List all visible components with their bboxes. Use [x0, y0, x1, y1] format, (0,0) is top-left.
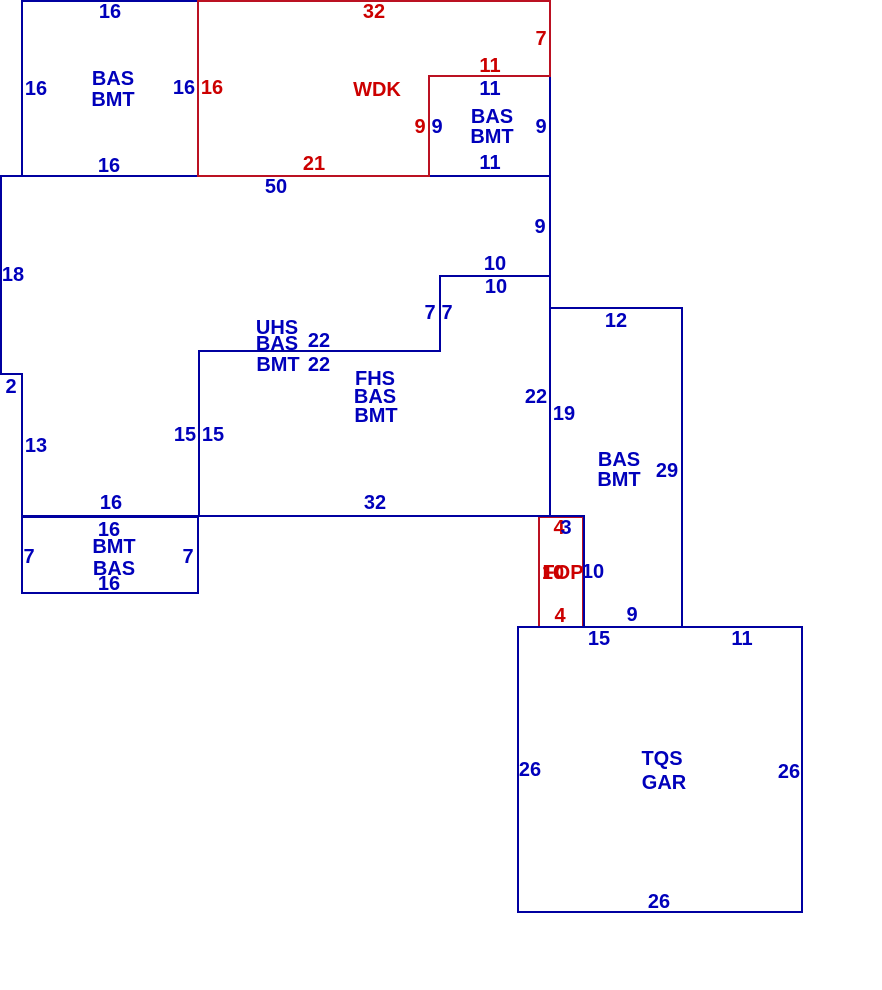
- area outline: TQS/GAR rectangle: [518, 627, 802, 912]
- svg-text:16: 16: [173, 77, 195, 99]
- svg-text:9: 9: [626, 604, 637, 626]
- area outline: red FOP rectangle: [539, 517, 583, 627]
- svg-text:16: 16: [100, 492, 122, 514]
- svg-text:11: 11: [479, 152, 500, 174]
- svg-text:7: 7: [23, 546, 34, 568]
- svg-text:BMT: BMT: [470, 126, 513, 148]
- area outline: top-right BAS/BMT rectangle: [429, 76, 550, 176]
- svg-text:32: 32: [364, 492, 386, 514]
- svg-text:10: 10: [582, 561, 604, 583]
- svg-text:7: 7: [182, 546, 193, 568]
- svg-text:11: 11: [731, 628, 752, 650]
- svg-text:BMT: BMT: [354, 405, 397, 427]
- svg-text:16: 16: [99, 1, 121, 23]
- svg-text:18: 18: [2, 264, 24, 286]
- svg-text:9: 9: [414, 116, 425, 138]
- area outline: bottom-left BMT/BAS rectangle: [22, 517, 198, 593]
- svg-text:29: 29: [656, 460, 678, 482]
- svg-text:12: 12: [605, 310, 627, 332]
- svg-text:9: 9: [535, 116, 546, 138]
- svg-text:9: 9: [431, 116, 442, 138]
- svg-text:16: 16: [98, 155, 120, 177]
- svg-text:BAS: BAS: [598, 449, 640, 471]
- svg-text:10: 10: [484, 253, 506, 275]
- svg-text:WDK: WDK: [353, 79, 401, 101]
- svg-text:21: 21: [303, 153, 325, 175]
- svg-text:7: 7: [441, 302, 452, 324]
- svg-text:11: 11: [479, 78, 500, 100]
- svg-text:BAS: BAS: [92, 68, 134, 90]
- svg-text:22: 22: [525, 386, 547, 408]
- svg-text:9: 9: [534, 216, 545, 238]
- svg-text:BAS: BAS: [471, 106, 513, 128]
- svg-text:22: 22: [308, 330, 330, 352]
- svg-text:BMT: BMT: [91, 89, 134, 111]
- svg-text:7: 7: [535, 28, 546, 50]
- svg-text:26: 26: [778, 761, 800, 783]
- svg-text:TQS: TQS: [641, 748, 682, 770]
- svg-text:BMT: BMT: [92, 536, 135, 558]
- svg-text:15: 15: [174, 424, 196, 446]
- area outline: main FHS/BAS/BMT polygon: [1, 176, 550, 516]
- svg-text:BMT: BMT: [597, 469, 640, 491]
- svg-text:16: 16: [98, 573, 120, 595]
- svg-text:22: 22: [308, 354, 330, 376]
- svg-text:19: 19: [553, 403, 575, 425]
- svg-text:BAS: BAS: [256, 333, 298, 355]
- svg-text:50: 50: [265, 176, 287, 198]
- svg-text:26: 26: [648, 891, 670, 913]
- svg-text:7: 7: [424, 302, 435, 324]
- svg-text:16: 16: [201, 77, 223, 99]
- svg-text:15: 15: [588, 628, 610, 650]
- area outline: top-left BAS/BMT rectangle: [22, 1, 198, 176]
- svg-text:11: 11: [479, 55, 500, 77]
- area outline: right BAS/BMT polygon: [550, 308, 682, 627]
- area outline: UHS step polyline: [199, 276, 550, 516]
- svg-text:BMT: BMT: [256, 354, 299, 376]
- svg-text:FOP: FOP: [542, 562, 583, 584]
- svg-text:16: 16: [25, 78, 47, 100]
- area outline: red WDK polygon: [198, 1, 550, 176]
- svg-text:2: 2: [5, 376, 16, 398]
- svg-text:GAR: GAR: [642, 772, 687, 794]
- svg-text:15: 15: [202, 424, 224, 446]
- svg-text:4: 4: [554, 605, 566, 627]
- svg-text:13: 13: [25, 435, 47, 457]
- svg-text:10: 10: [485, 276, 507, 298]
- svg-text:3: 3: [560, 517, 571, 539]
- svg-text:26: 26: [519, 759, 541, 781]
- svg-text:32: 32: [363, 1, 385, 23]
